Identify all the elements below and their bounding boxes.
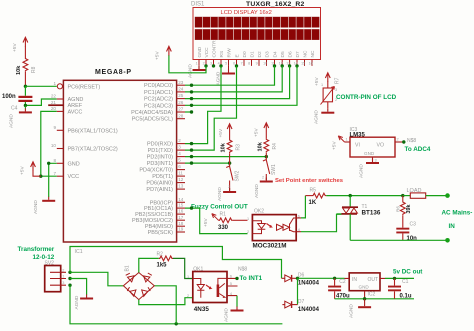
svg-text:LOAD: LOAD [407,188,422,194]
switch SW1 [262,157,277,180]
svg-text:2: 2 [203,61,205,65]
svg-text:23: 23 [178,80,184,85]
svg-text:+5V: +5V [203,218,209,227]
svg-text:GND: GND [359,285,370,290]
svg-text:OUT: OUT [368,277,379,283]
LCD display DIS1 TUXGR_16X2_R2 [191,1,321,60]
svg-text:PD5(T1): PD5(T1) [152,174,173,180]
svg-text:MOC3021M: MOC3021M [253,242,287,249]
terminal AC top [445,193,450,198]
wire MCU VCC pin [39,175,57,178]
svg-text:100n: 100n [2,94,16,100]
triac T1 BT136 [337,196,381,241]
svg-text:R5: R5 [310,187,317,193]
annotation: Fuzzy Control OUT [191,204,248,211]
svg-text:7: 7 [53,171,56,176]
svg-text:3: 3 [375,159,377,163]
svg-text:E: E [234,54,240,57]
supply +5V at MCU VCC [20,162,41,176]
svg-text:N$8: N$8 [238,266,247,272]
trimmer R7 contrast pot [321,77,341,108]
svg-text:PB6(XTAL1/TOSC1): PB6(XTAL1/TOSC1) [68,128,118,134]
ground AGND under OK1 [224,307,244,323]
wire MCU PC3 to LCD D7 [185,66,297,107]
svg-text:D3: D3 [264,51,270,57]
ground AGND under MCU GND [33,197,55,214]
svg-text:AGND: AGND [9,114,15,128]
svg-text:3: 3 [62,281,64,285]
svg-text:CONTR-PIN OF LCD: CONTR-PIN OF LCD [336,94,397,101]
supply +5V for LCD VCC [155,46,172,60]
regulator IC2 7805 [345,273,386,299]
svg-text:28: 28 [178,113,184,118]
svg-text:+5V: +5V [332,141,338,150]
ground AGND under LM35 [359,159,380,178]
svg-text:D0: D0 [242,51,248,57]
annotation: Transformer 12-0-12 [18,246,55,261]
svg-text:+5V: +5V [314,77,320,86]
designator IC1 [75,249,83,255]
svg-text:D5: D5 [280,51,286,57]
svg-text:IN: IN [449,223,456,230]
LCD character row 1 [195,17,320,28]
svg-text:+5V: +5V [218,128,224,137]
svg-text:7: 7 [241,61,243,65]
svg-text:+5V: +5V [20,166,26,175]
capacitor C1 0.1u [388,277,412,300]
svg-text:R2: R2 [157,251,164,257]
bridge rectifier B1 [123,265,154,299]
svg-text:CONTR: CONTR [211,40,217,58]
svg-text:19: 19 [178,227,184,232]
diode D6 1N4004 [282,272,320,286]
svg-text:PC4(ADC4/SDA): PC4(ADC4/SDA) [131,110,173,116]
wire D6 cathode to regulator input [296,277,345,280]
wire MCU PD3 to SW2 [185,161,231,164]
wire MCU AVCC down to VCC node [41,111,57,176]
svg-text:12: 12 [178,177,184,182]
svg-text:VCC: VCC [68,174,80,180]
svg-text:IN: IN [352,277,357,283]
LCD pin stubs [199,60,312,66]
wire MCU PC0 to LCD D4 [185,66,275,87]
svg-text:PD0(RXD): PD0(RXD) [147,142,173,148]
terminal AC bottom [445,238,450,243]
svg-text:D7: D7 [298,299,305,305]
ground AGND under SW1 [254,178,273,199]
svg-text:AGND: AGND [188,64,194,78]
MCU left pin names [68,84,118,180]
svg-text:AGND: AGND [349,304,355,318]
wire MCU AGND pin to C4 ground [24,99,57,107]
svg-text:RS: RS [219,51,225,58]
svg-text:AGND: AGND [74,295,80,309]
wire MCU GND pin to ground [47,162,57,197]
svg-text:AGND: AGND [33,200,39,214]
svg-text:NC: NC [310,50,316,57]
svg-text:10: 10 [263,61,267,65]
LCD character row 2 [195,29,320,40]
svg-text:R8: R8 [31,66,37,73]
svg-text:10k: 10k [16,65,22,75]
svg-text:11: 11 [178,171,183,176]
pin stubs OK1 right [227,278,238,295]
svg-text:2: 2 [178,138,181,143]
svg-text:1N4004: 1N4004 [298,281,320,287]
svg-text:AREF: AREF [68,103,83,109]
svg-text:VO: VO [377,143,385,149]
MCU right pin names [131,83,173,236]
svg-text:0.1u: 0.1u [400,293,412,299]
wire LCD RS to MCU PD0 [185,66,221,145]
svg-text:SW1: SW1 [271,164,277,175]
svg-text:3: 3 [335,88,337,92]
svg-text:R/W: R/W [226,48,232,58]
optocoupler OK2 MOC3021M [247,208,301,249]
svg-text:C3: C3 [410,222,417,228]
svg-text:AGND: AGND [68,97,84,103]
ground AGND under LCD pin5 R/W [216,66,236,86]
capacitor C4 100n [2,86,32,111]
annotation: AC Mains-IN [442,209,473,230]
capacitor C3 10n [396,222,417,242]
svg-text:D4: D4 [272,51,278,57]
svg-text:PC2(ADC2): PC2(ADC2) [144,97,173,103]
svg-text:PD6(AIN0): PD6(AIN0) [146,181,173,187]
svg-text:To INT1: To INT1 [240,275,263,282]
svg-text:D7: D7 [295,51,301,57]
svg-text:AC Mains-: AC Mains- [442,209,473,216]
svg-text:AVCC: AVCC [68,109,83,115]
svg-text:3: 3 [178,145,181,150]
MCU left pin numbers [51,81,57,176]
wire transformer top to D6 anode [70,247,282,279]
ground AGND under LCD pin1 [188,64,206,78]
node transformer center [68,277,71,280]
svg-text:10k: 10k [257,141,263,151]
wire MCU PB1/OC1A to MOC3021 pin2 [185,206,248,233]
svg-text:PD2(INT0): PD2(INT0) [147,155,173,161]
svg-text:AGND: AGND [314,110,320,124]
svg-text:PC6(RESET): PC6(RESET) [68,84,101,90]
ground AGND under R7 [314,109,335,124]
supply +5V above R3 [218,124,232,138]
svg-text:16: 16 [309,61,313,65]
ground AGND under IC2 [349,299,372,318]
wire MCU PC2 to LCD D6 [185,66,290,100]
resistor R3 10k [221,133,242,163]
svg-text:15: 15 [178,203,184,208]
wire bridge right to AC rail [154,286,176,324]
svg-text:+5V: +5V [254,128,260,137]
wire D7 cathode joins D6 [297,278,299,304]
svg-text:330: 330 [218,225,229,231]
svg-text:39k: 39k [406,205,412,214]
svg-text:D6: D6 [287,51,293,57]
svg-text:MEGA8-P: MEGA8-P [95,69,132,76]
svg-text:OK2: OK2 [254,208,264,214]
svg-text:PC5(ADC5/SCL): PC5(ADC5/SCL) [132,117,173,123]
svg-text:VI: VI [355,143,360,149]
ground AGND under C4 [9,105,32,128]
svg-text:PC0(ADC0): PC0(ADC0) [144,83,173,89]
svg-text:6: 6 [233,61,235,65]
svg-text:1K: 1K [309,200,317,206]
svg-text:R7: R7 [335,77,341,84]
svg-text:BT136: BT136 [362,210,381,217]
svg-text:1: 1 [346,138,348,142]
annotation: To ADC4 [405,146,431,153]
MCU pin1 inversion circle [57,84,62,89]
wire R2 to OK1 pin1 [173,258,193,278]
svg-text:1: 1 [62,275,64,279]
svg-text:R1: R1 [220,212,227,218]
svg-text:+5V: +5V [12,43,18,52]
svg-text:3: 3 [210,61,212,65]
svg-text:PC1(ADC1): PC1(ADC1) [144,90,173,96]
svg-text:1k5: 1k5 [157,263,168,269]
svg-text:15: 15 [301,61,305,65]
load resistor LOAD [403,188,448,198]
svg-text:8: 8 [248,61,250,65]
MCU AREF heavy stub [48,104,63,106]
svg-text:LCD DISPLAY 16x2: LCD DISPLAY 16x2 [221,10,272,16]
wire MOC pin4 to triac gate [301,214,341,231]
resistor R6 snubber [395,196,412,228]
svg-text:C4: C4 [11,106,18,112]
svg-text:DIS1: DIS1 [191,2,205,8]
svg-text:2: 2 [247,230,249,234]
temperature sensor IC3 LM35 [345,127,404,163]
node N$8 zero cross [235,266,247,280]
svg-text:9: 9 [53,125,56,130]
svg-text:PD7(AIN1): PD7(AIN1) [146,187,173,193]
svg-text:1: 1 [196,61,198,65]
node transformer bottom [68,284,71,287]
svg-text:18: 18 [178,221,184,226]
resistor R1 330 [218,212,248,231]
supply +5V above R8 [12,37,28,52]
switch SW2 [226,163,240,190]
svg-text:27: 27 [178,107,184,112]
svg-text:AGND: AGND [217,187,223,201]
svg-text:GND: GND [68,161,80,167]
svg-text:4: 4 [218,61,220,65]
svg-text:GND: GND [197,46,203,57]
svg-text:Set Point enter switches: Set Point enter switches [275,178,344,184]
resistor R2 1k5 [157,251,174,268]
MCU left pin stubs [57,86,64,176]
svg-text:AGND: AGND [254,184,260,198]
svg-text:20: 20 [51,106,57,111]
wire transformer center tap to ground [70,279,87,295]
svg-text:To ADC4: To ADC4 [405,146,431,153]
wire reset node to MCU pin1 [24,85,57,88]
MCU right pin stubs [177,85,185,232]
capacitor C2 470u [328,277,350,300]
svg-text:IC2: IC2 [368,291,376,297]
svg-text:24: 24 [178,87,184,92]
ground AGND under SW2 [217,187,236,201]
node transformer top [68,271,71,274]
svg-text:10: 10 [51,143,57,148]
svg-text:Transformer: Transformer [18,246,55,253]
svg-text:N$8: N$8 [407,138,416,144]
svg-text:D1: D1 [249,51,255,57]
microcontroller IC1 MEGA8-P [63,69,176,242]
svg-text:16: 16 [178,209,184,214]
svg-text:26: 26 [178,100,184,105]
diode D7 1N4004 [282,299,319,313]
wire dc ground bus [335,297,414,300]
svg-text:+5V: +5V [155,51,161,60]
svg-text:PB5(SCK): PB5(SCK) [148,230,174,236]
svg-text:1: 1 [321,83,323,87]
svg-text:10n: 10n [407,236,418,242]
wire MCU PD2 to SW1 [185,155,268,158]
svg-text:NC: NC [302,50,308,57]
svg-text:13: 13 [178,184,184,189]
LCD pin junction dots [204,64,298,67]
svg-text:R3: R3 [236,144,242,151]
wire MOC pin6 to R5 [301,196,305,218]
svg-text:PD3(INT1): PD3(INT1) [147,161,173,167]
svg-text:9: 9 [256,61,258,65]
svg-text:PB2(SS/OC1B): PB2(SS/OC1B) [135,212,173,218]
svg-text:2: 2 [187,294,189,298]
svg-text:C2: C2 [339,279,346,285]
svg-text:2: 2 [62,268,64,272]
resistor R4 10k [257,132,278,157]
wire regulator output [385,277,414,279]
svg-text:5: 5 [178,158,181,163]
wire AC bottom [350,239,447,241]
annotation: CONTR-PIN OF LCD [336,94,397,101]
svg-text:5v DC out: 5v DC out [393,268,423,275]
ground AGND center tap [74,295,93,310]
svg-text:TUXGR_16X2_R2: TUXGR_16X2_R2 [246,1,305,8]
supply +5V for R1 [203,214,219,227]
svg-text:6: 6 [178,164,181,169]
wire transformer top to bridge left [70,272,123,286]
svg-text:1: 1 [187,275,189,279]
svg-text:10k: 10k [221,142,227,152]
LCD pin numbers [196,61,313,65]
wire bridge top to R2 [139,258,159,272]
wire transformer bottom to AC rail [70,285,282,325]
svg-text:VCC: VCC [204,47,210,58]
svg-text:AGND: AGND [359,164,365,178]
svg-text:14: 14 [178,197,184,202]
svg-text:4: 4 [178,151,181,156]
svg-text:1N4004: 1N4004 [298,307,320,313]
wire LCD VCC to +5V [169,55,206,73]
connector SV2 [45,260,67,291]
svg-text:1: 1 [53,81,56,86]
svg-text:8: 8 [53,158,56,163]
svg-text:R6: R6 [395,206,400,212]
supply +5V above R4 [254,123,269,137]
MCU right pin numbers [178,80,184,232]
annotation: 5v DC out [393,268,423,275]
svg-text:21: 21 [51,100,57,105]
svg-text:5: 5 [225,61,227,65]
wire bridge bottom to OK1 pin2 [139,298,193,305]
svg-text:GND: GND [364,151,375,156]
svg-text:PC3(ADC3): PC3(ADC3) [144,103,173,109]
svg-text:C1: C1 [402,279,409,285]
net stub MCU PC4/ADC4 [185,110,193,113]
svg-text:SW2: SW2 [235,170,241,181]
svg-text:R4: R4 [272,143,278,150]
svg-text:AGND: AGND [224,308,230,322]
resistor R8 10k [16,46,37,86]
wire R5 to load node [326,194,404,197]
svg-text:D2: D2 [257,51,263,57]
wire MCU PC1 to LCD D5 [185,66,282,94]
svg-text:2: 2 [397,138,399,142]
annotation: To INT1 [240,275,263,282]
node N$8 LM35 output [402,138,416,144]
svg-text:2: 2 [262,176,264,180]
svg-text:B1: B1 [125,265,131,271]
svg-text:25: 25 [178,93,184,98]
optocoupler OK1 4N35 [187,266,232,313]
supply +5V for LM35 [332,136,345,150]
svg-text:PD1(TXD): PD1(TXD) [148,148,174,154]
supply +5V above trimmer R7 [314,73,330,86]
LCD pin name labels [197,40,316,58]
svg-text:1: 1 [247,217,249,221]
svg-text:22: 22 [51,94,57,99]
svg-text:17: 17 [178,215,184,220]
svg-text:PD4(XCK/T0): PD4(XCK/T0) [139,168,173,174]
svg-text:4N35: 4N35 [194,306,210,313]
svg-text:IC1: IC1 [75,249,83,255]
resistor R5 1K [305,187,326,206]
svg-text:PB7(XTAL2/TOSC2): PB7(XTAL2/TOSC2) [68,147,118,153]
wire LCD E to MCU PD1 [185,66,237,152]
wire OK1 pin4 to ground [236,296,238,307]
annotation: Set Point enter switches [275,178,344,184]
